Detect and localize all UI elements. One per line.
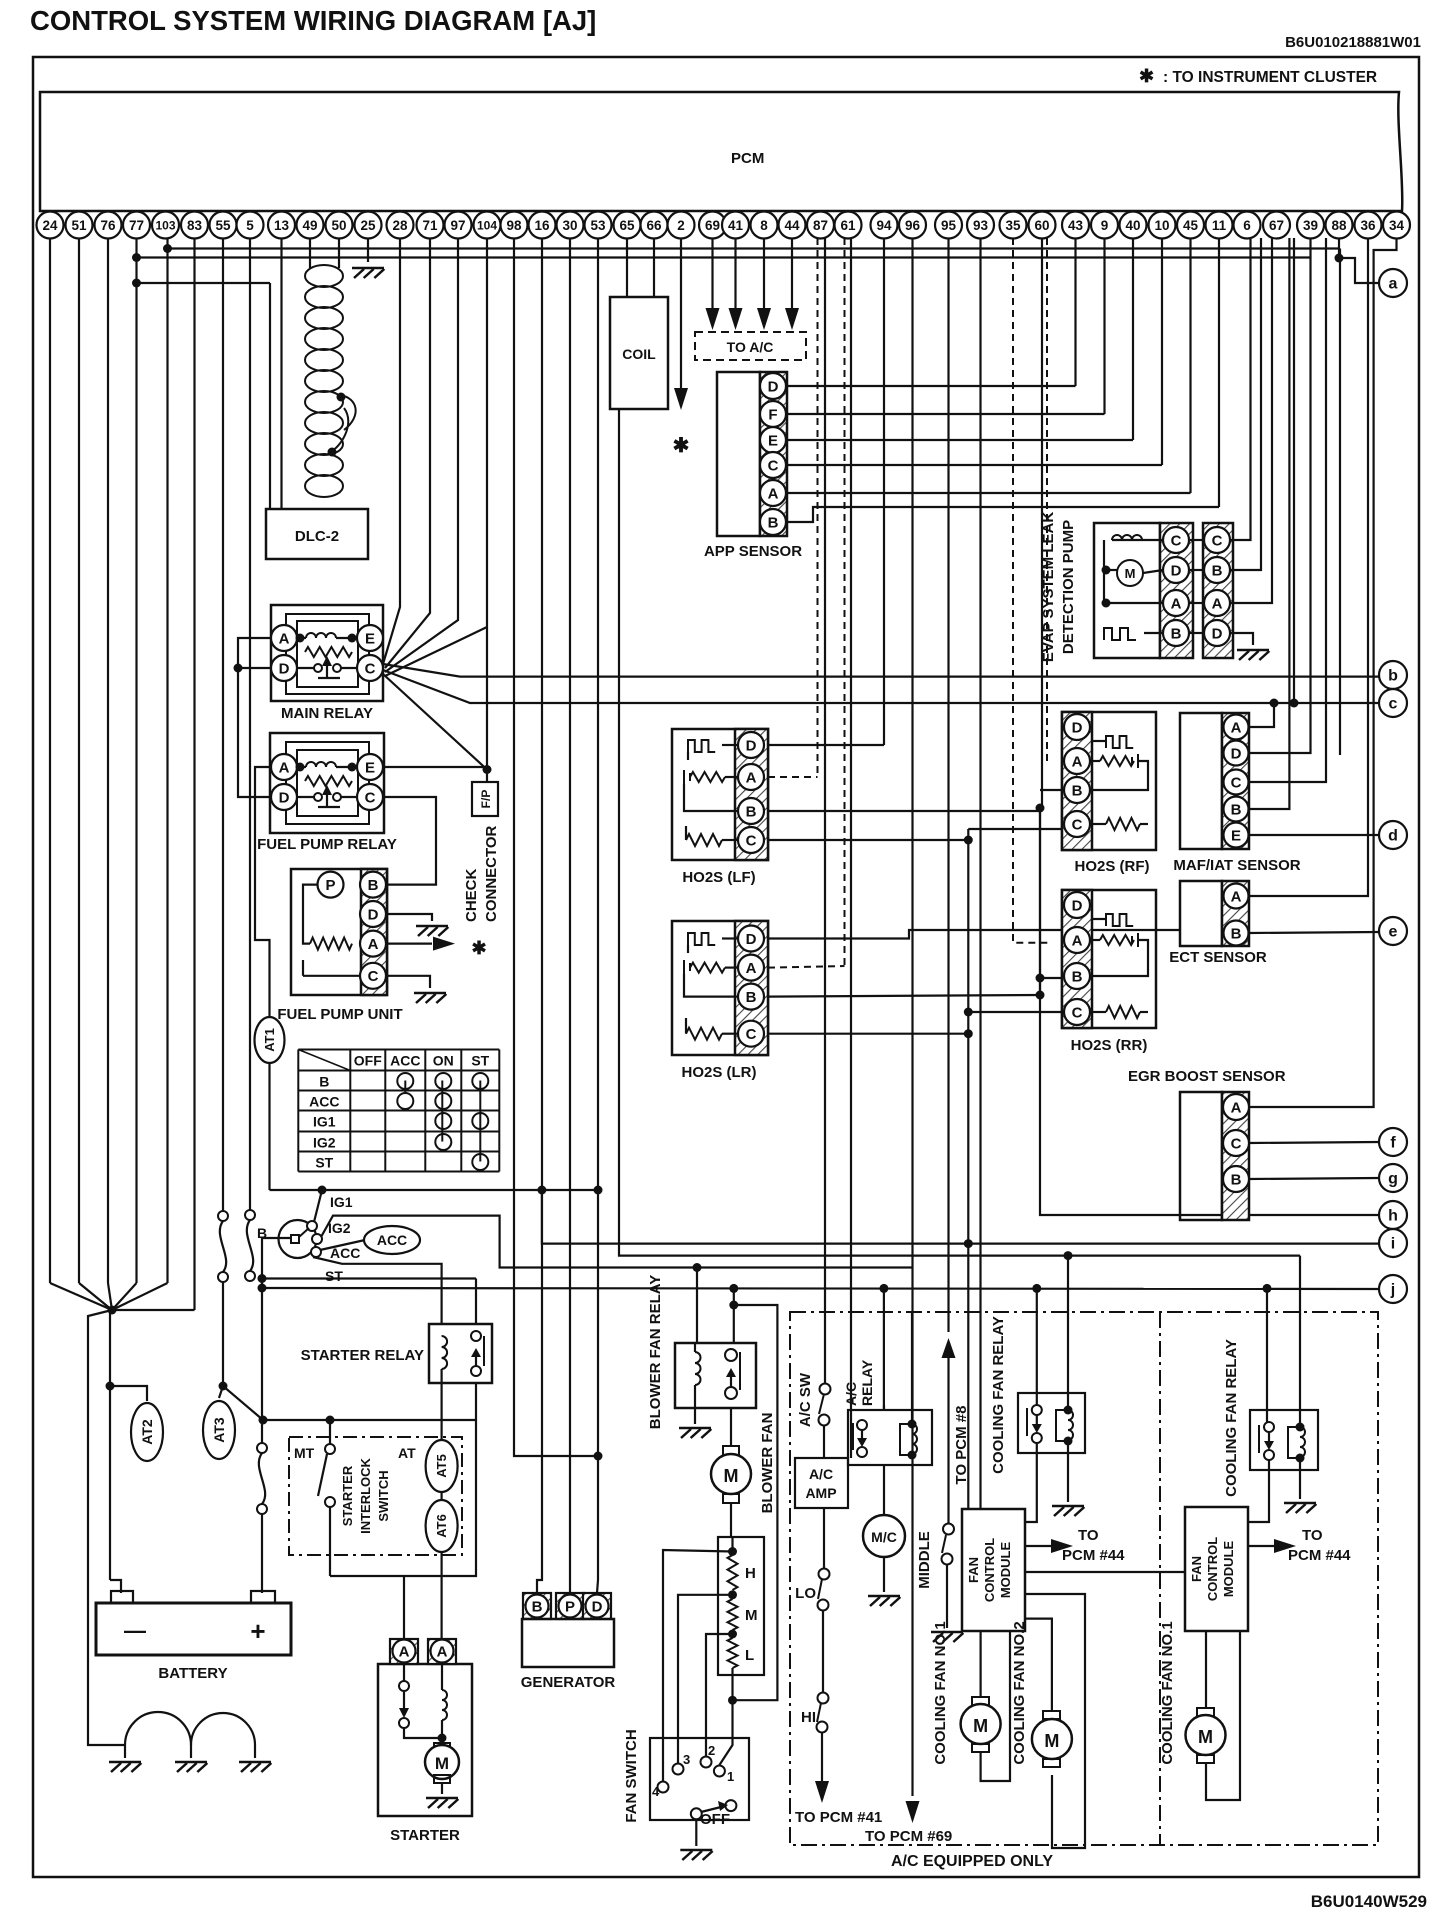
svg-text:44: 44 xyxy=(784,218,800,233)
svg-text:d: d xyxy=(1388,828,1398,845)
connector AT5 xyxy=(426,1440,458,1492)
svg-text:93: 93 xyxy=(973,218,989,233)
magnetic clutch M/C xyxy=(863,1515,905,1557)
svg-text:BATTERY: BATTERY xyxy=(158,1665,227,1682)
wire horizontal to interlock / relay return xyxy=(263,1419,476,1421)
node h xyxy=(1379,1201,1407,1229)
svg-text:F: F xyxy=(768,406,777,423)
wire MAF A to node c xyxy=(1249,703,1274,727)
svg-text:B: B xyxy=(768,514,779,531)
svg-text:EGR BOOST SENSOR: EGR BOOST SENSOR xyxy=(1128,1068,1286,1085)
svg-text:25: 25 xyxy=(360,218,376,233)
wire A/C relay to magnetic clutch xyxy=(883,1465,885,1516)
svg-text:30: 30 xyxy=(562,218,577,233)
node b xyxy=(1379,661,1407,689)
svg-text:M: M xyxy=(724,1466,739,1486)
svg-text:34: 34 xyxy=(1389,218,1405,233)
svg-text:1: 1 xyxy=(727,1769,734,1784)
svg-text:C: C xyxy=(365,789,376,806)
svg-text:AT5: AT5 xyxy=(434,1454,449,1478)
connector AT6 xyxy=(426,1500,458,1552)
svg-text:P: P xyxy=(325,877,335,894)
fan control module right xyxy=(1185,1507,1248,1631)
svg-text:B6U0140W529: B6U0140W529 xyxy=(1311,1892,1427,1911)
node c wire from main relay C xyxy=(383,670,1379,703)
wire bundle pins 24,51,76,77,103,83 to battery junction xyxy=(49,238,51,1283)
dashed wire pin 87 to HO2S LF pin A xyxy=(817,238,819,777)
svg-text:IG1: IG1 xyxy=(313,1114,336,1130)
svg-text:D: D xyxy=(279,789,290,806)
svg-text:A: A xyxy=(746,769,757,786)
svg-text:66: 66 xyxy=(646,218,662,233)
wire pin 88 to node a xyxy=(1338,238,1340,258)
svg-text:CHECK: CHECK xyxy=(463,868,480,922)
svg-text:96: 96 xyxy=(905,218,921,233)
svg-text:HO2S (LR): HO2S (LR) xyxy=(682,1064,757,1081)
svg-text:AMP: AMP xyxy=(805,1485,836,1501)
connector AT1 xyxy=(255,1017,285,1063)
node b wire from main relay C xyxy=(383,664,1379,677)
svg-text:AT2: AT2 xyxy=(139,1419,155,1445)
svg-text:b: b xyxy=(1388,668,1398,685)
svg-text:FAN SWITCH: FAN SWITCH xyxy=(623,1729,640,1822)
svg-text:F/P: F/P xyxy=(479,790,493,809)
svg-text:A/C SW: A/C SW xyxy=(797,1372,814,1427)
svg-text:A: A xyxy=(437,1643,448,1660)
svg-text:FUEL PUMP RELAY: FUEL PUMP RELAY xyxy=(257,836,397,853)
svg-text:60: 60 xyxy=(1034,218,1049,233)
svg-text:LO: LO xyxy=(795,1585,816,1602)
svg-text:B: B xyxy=(532,1598,543,1615)
wire LF D to pin 94 xyxy=(768,744,884,746)
wire starter relay coil to AT5/AT6 xyxy=(441,1383,443,1440)
svg-text:88: 88 xyxy=(1331,218,1347,233)
svg-text:h: h xyxy=(1388,1208,1398,1225)
wire LR D to ECT B row xyxy=(768,930,1180,939)
wire fuel pump relay C to fuel pump unit B xyxy=(383,797,436,885)
svg-text:D: D xyxy=(768,378,779,395)
HO2S (RR) oxygen sensor xyxy=(1062,890,1156,1028)
wire EGR C to node f xyxy=(1249,1142,1379,1143)
svg-text:69: 69 xyxy=(705,218,720,233)
svg-text:APP SENSOR: APP SENSOR xyxy=(704,543,802,560)
HO2S (LF) oxygen sensor xyxy=(672,729,768,860)
wire C chain to RR C xyxy=(964,1008,973,1017)
ECT sensor xyxy=(1180,881,1222,946)
svg-text:61: 61 xyxy=(840,218,856,233)
interlock MT switch xyxy=(329,1420,331,1444)
wire IG1 line xyxy=(314,1190,322,1222)
connector AT3 xyxy=(219,1386,223,1398)
svg-text:COOLING FAN NO.1: COOLING FAN NO.1 xyxy=(932,1621,949,1764)
wire starter relay switch to starter A left xyxy=(330,1420,476,1576)
svg-text:E: E xyxy=(768,432,778,449)
wire junction down to battery negative xyxy=(109,1310,111,1580)
svg-text:76: 76 xyxy=(100,218,116,233)
svg-text:C: C xyxy=(1171,532,1182,549)
svg-text:EVAP SYSTEM LEAK: EVAP SYSTEM LEAK xyxy=(1040,512,1057,662)
HO2S (RF) oxygen sensor xyxy=(1062,712,1156,850)
wire i chain into module xyxy=(967,1244,969,1509)
svg-text:CONTROL SYSTEM WIRING DIAGRAM: CONTROL SYSTEM WIRING DIAGRAM [AJ] xyxy=(30,5,596,36)
ignition switch table xyxy=(297,1050,299,1172)
svg-text:A: A xyxy=(279,759,290,776)
svg-text:✱: ✱ xyxy=(1139,66,1154,86)
dashed wire pin 60b to HO2S RF pin A xyxy=(1047,238,1052,761)
svg-text:D: D xyxy=(279,660,290,677)
svg-text:40: 40 xyxy=(1125,218,1140,233)
wire ACC to connector xyxy=(320,1240,365,1250)
ground fuel pump unit C xyxy=(387,976,430,988)
svg-text:M/C: M/C xyxy=(871,1529,897,1545)
MIDDLE pressure switch xyxy=(943,1524,954,1535)
wire MAF B to pin 36 xyxy=(1249,238,1289,809)
svg-text:IG2: IG2 xyxy=(313,1135,336,1151)
svg-text:FAN: FAN xyxy=(966,1557,981,1583)
svg-text:SWITCH: SWITCH xyxy=(376,1470,391,1521)
svg-text:3: 3 xyxy=(683,1752,690,1767)
svg-text:97: 97 xyxy=(450,218,465,233)
svg-text:B: B xyxy=(1231,925,1242,942)
svg-text:DETECTION PUMP: DETECTION PUMP xyxy=(1060,520,1077,654)
wire ECT A to pin 36 xyxy=(1249,238,1368,896)
svg-text:D: D xyxy=(1231,745,1242,762)
svg-text:TO: TO xyxy=(1302,1527,1323,1544)
svg-text:CONTROL: CONTROL xyxy=(982,1538,997,1602)
svg-text:55: 55 xyxy=(215,218,231,233)
wire battery positive column xyxy=(261,1238,263,1443)
wire ECT B to node e xyxy=(1249,932,1379,933)
svg-text:i: i xyxy=(1391,1236,1395,1253)
ignition switch xyxy=(279,1220,317,1258)
svg-text:C: C xyxy=(368,968,379,985)
wire LF B to B chain xyxy=(768,810,1040,812)
ground blower fan relay xyxy=(694,1408,696,1424)
svg-text:B: B xyxy=(1072,782,1083,799)
svg-text:2: 2 xyxy=(708,1743,715,1758)
svg-text:COOLING FAN RELAY: COOLING FAN RELAY xyxy=(990,1316,1007,1474)
svg-text:INTERLOCK: INTERLOCK xyxy=(358,1457,373,1533)
svg-text:TO A/C: TO A/C xyxy=(727,339,774,355)
svg-text:f: f xyxy=(1390,1135,1396,1152)
wire relay to fan control module xyxy=(1025,1443,1037,1522)
bus wire from pin 77 (y=257.5) xyxy=(135,238,137,283)
wire LF C to C chain xyxy=(768,839,968,841)
svg-text:M: M xyxy=(435,1754,449,1773)
svg-text:ACC: ACC xyxy=(390,1053,420,1069)
svg-text:MODULE: MODULE xyxy=(1221,1541,1236,1598)
wire pin 87 to A/C switch xyxy=(824,238,826,1389)
node i wire from IG1 junction xyxy=(542,1190,1379,1244)
svg-text:E: E xyxy=(365,630,375,647)
starter motor assembly xyxy=(378,1664,472,1816)
wire B chain links xyxy=(1040,789,1064,791)
svg-text:A: A xyxy=(1231,888,1242,905)
relay MAIN RELAY xyxy=(271,605,383,701)
svg-text:104: 104 xyxy=(477,218,497,232)
svg-text:B: B xyxy=(319,1074,329,1090)
starter interlock switch dashed box xyxy=(289,1437,462,1555)
svg-text:B6U010218881W01: B6U010218881W01 xyxy=(1285,34,1421,51)
svg-text:D: D xyxy=(746,737,757,754)
svg-text:ACC: ACC xyxy=(377,1232,407,1248)
svg-text:OFF: OFF xyxy=(700,1811,730,1828)
svg-text:13: 13 xyxy=(274,218,290,233)
svg-text:E: E xyxy=(1231,827,1241,844)
svg-text:A: A xyxy=(768,485,779,502)
wire A/C relay coil riser xyxy=(911,1313,913,1414)
svg-text:B: B xyxy=(746,989,757,1006)
relay STARTER RELAY xyxy=(429,1324,492,1383)
svg-text:A: A xyxy=(279,630,290,647)
wires pins 28,71,97 into main relay C xyxy=(383,238,400,664)
svg-text:C: C xyxy=(365,660,376,677)
HO2S (LR) oxygen sensor xyxy=(672,921,768,1055)
svg-text:FUEL PUMP UNIT: FUEL PUMP UNIT xyxy=(277,1006,402,1023)
svg-text:DLC-2: DLC-2 xyxy=(295,528,339,545)
svg-text:51: 51 xyxy=(71,218,87,233)
svg-text:45: 45 xyxy=(1183,218,1199,233)
cable drain hook xyxy=(330,395,356,452)
TO A/C dashed box xyxy=(695,332,806,360)
svg-text:95: 95 xyxy=(941,218,957,233)
svg-text:TO: TO xyxy=(1078,1527,1099,1544)
svg-text:M: M xyxy=(1125,566,1136,581)
wire to PCM 69 arrow xyxy=(906,1801,920,1823)
svg-text:A: A xyxy=(1212,595,1223,612)
APP sensor connector xyxy=(717,372,760,536)
svg-text:D: D xyxy=(368,906,379,923)
wire module to cooling fan no1 xyxy=(979,1631,981,1697)
wire EVAP B to pin 67 xyxy=(1230,238,1261,570)
svg-text:65: 65 xyxy=(619,218,635,233)
svg-text:COOLING FAN RELAY: COOLING FAN RELAY xyxy=(1223,1339,1240,1497)
MAF/IAT sensor xyxy=(1180,713,1222,849)
wire AT1 to fuel pump relay A xyxy=(255,767,271,1017)
wires APP sensor to PCM pins 43,9,40,10,45,11 xyxy=(786,385,1076,387)
svg-text:2: 2 xyxy=(677,218,685,233)
svg-text:43: 43 xyxy=(1068,218,1084,233)
svg-text:4: 4 xyxy=(652,1784,660,1799)
svg-text:50: 50 xyxy=(331,218,346,233)
EVAP harness connector xyxy=(1203,523,1233,658)
svg-text:FAN: FAN xyxy=(1189,1556,1204,1582)
wires pins 65,66 to coil xyxy=(626,238,628,297)
battery xyxy=(96,1603,291,1655)
svg-text:A/C: A/C xyxy=(843,1382,859,1406)
svg-text:ST: ST xyxy=(471,1053,489,1069)
svg-text:B: B xyxy=(746,803,757,820)
svg-text:HO2S (RF): HO2S (RF) xyxy=(1075,858,1150,875)
junction battery feed xyxy=(108,1306,117,1315)
svg-text:C: C xyxy=(746,1026,757,1043)
wire AT3 junction diagonal to battery plus column xyxy=(223,1386,263,1420)
svg-text:M: M xyxy=(745,1607,758,1624)
fan switch wires xyxy=(663,1550,733,1782)
arrow to PCM 44 left xyxy=(1025,1545,1052,1547)
ground cooling fan relay right xyxy=(1299,1458,1301,1499)
fuel pump unit xyxy=(291,869,387,995)
svg-text:HO2S (RR): HO2S (RR) xyxy=(1071,1037,1148,1054)
node c xyxy=(1379,689,1407,717)
wire pin 61 to A/C amplifier xyxy=(850,238,852,1458)
wire fuel pump relay E to check connector junction xyxy=(383,766,487,768)
svg-text:83: 83 xyxy=(187,218,203,233)
node j xyxy=(1379,1275,1407,1303)
generator xyxy=(523,1593,551,1619)
svg-text:PCM: PCM xyxy=(731,150,764,167)
svg-text:AT6: AT6 xyxy=(434,1514,449,1538)
svg-text:M: M xyxy=(973,1716,988,1736)
node d xyxy=(1379,821,1407,849)
svg-text:67: 67 xyxy=(1269,218,1284,233)
svg-text:ON: ON xyxy=(433,1053,454,1069)
svg-text:B: B xyxy=(1212,562,1223,579)
dashed wire LR A xyxy=(768,966,845,968)
check connector F/P box xyxy=(472,782,498,816)
PCM box xyxy=(40,92,1402,211)
svg-text:16: 16 xyxy=(534,218,550,233)
svg-text:L: L xyxy=(745,1647,754,1664)
svg-text:A: A xyxy=(1072,753,1083,770)
wire C chain vertical to node i xyxy=(967,829,969,1244)
wire pin 13 to DLC-2 xyxy=(280,238,282,509)
ground fuel pump unit D xyxy=(387,914,432,921)
svg-text:B: B xyxy=(1231,801,1242,818)
wire pin 95 to PCM 8 arrow xyxy=(947,238,949,1332)
svg-text:TO PCM #69: TO PCM #69 xyxy=(865,1828,952,1845)
svg-text:6: 6 xyxy=(1243,218,1251,233)
coil COIL box xyxy=(610,297,668,409)
wire LR C to C chain xyxy=(768,1033,968,1035)
wire relay to module right xyxy=(1249,1460,1269,1522)
svg-text:D: D xyxy=(592,1598,603,1615)
wire pin 2 to instrument cluster arrow xyxy=(680,238,682,388)
svg-text:36: 36 xyxy=(1360,218,1376,233)
svg-text:A/C: A/C xyxy=(809,1466,833,1482)
shielded cable spiral pins 49,50 to DLC-2 xyxy=(309,238,311,268)
svg-text:M: M xyxy=(1198,1727,1213,1747)
PCM connector pin row xyxy=(37,212,64,239)
svg-text:C: C xyxy=(1072,1004,1083,1021)
ground cooling fan relay left xyxy=(1067,1441,1069,1502)
dashed wire LF A xyxy=(768,776,818,778)
wire pin 96 to PCM 69 arrow xyxy=(911,238,913,1796)
wire top bus riser xyxy=(1339,249,1341,756)
svg-text:ST: ST xyxy=(315,1155,333,1171)
wire EGR A to pin 34 xyxy=(1249,238,1397,1107)
svg-text:STARTER: STARTER xyxy=(390,1827,460,1844)
svg-text:B: B xyxy=(1072,968,1083,985)
svg-text:A/C EQUIPPED ONLY: A/C EQUIPPED ONLY xyxy=(891,1853,1053,1870)
wire fuel pump unit A to check connector xyxy=(387,942,432,944)
wire LR B to B chain xyxy=(768,995,1040,997)
wire pin 93 to fan control module xyxy=(979,238,981,1509)
svg-text:✱: ✱ xyxy=(471,938,486,958)
wire pin77 to DLC-2 (y=283) xyxy=(137,282,271,284)
svg-text:P: P xyxy=(565,1598,575,1615)
wire MAF D to pin 39 xyxy=(1249,238,1311,753)
svg-text:TO PCM #41: TO PCM #41 xyxy=(795,1809,882,1826)
svg-text:COIL: COIL xyxy=(622,346,656,362)
svg-text:GENERATOR: GENERATOR xyxy=(521,1674,616,1691)
svg-text:B: B xyxy=(1171,625,1182,642)
svg-text:MAIN RELAY: MAIN RELAY xyxy=(281,705,373,722)
svg-text:24: 24 xyxy=(42,218,58,233)
svg-text:+: + xyxy=(250,1616,265,1646)
svg-text:ACC: ACC xyxy=(309,1094,339,1110)
A/C amplifier xyxy=(795,1458,848,1508)
svg-text:B: B xyxy=(368,877,379,894)
svg-text:A: A xyxy=(1171,595,1182,612)
svg-text:e: e xyxy=(1389,924,1398,941)
starter motor M xyxy=(434,1743,450,1751)
svg-text:HI: HI xyxy=(801,1709,816,1726)
svg-text:E: E xyxy=(365,759,375,776)
node i xyxy=(1379,1229,1407,1257)
svg-text:10: 10 xyxy=(1154,218,1169,233)
svg-text:MIDDLE: MIDDLE xyxy=(916,1531,933,1589)
dashed wire pin 61 to HO2S LR pin A xyxy=(844,238,846,966)
svg-text:MT: MT xyxy=(294,1445,315,1461)
svg-text:COOLING FAN NO.2: COOLING FAN NO.2 xyxy=(1011,1621,1028,1764)
svg-text:OFF: OFF xyxy=(354,1053,382,1069)
svg-text:28: 28 xyxy=(392,218,408,233)
bus wire from pin 103 (y=248.5) xyxy=(166,238,168,249)
wire module link to right section xyxy=(1025,1571,1185,1573)
svg-text:C: C xyxy=(768,457,779,474)
wire main relay A,D to supply column xyxy=(238,638,271,797)
svg-text:A: A xyxy=(1231,1099,1242,1116)
svg-text:94: 94 xyxy=(876,218,892,233)
svg-text:MAF/IAT SENSOR: MAF/IAT SENSOR xyxy=(1173,857,1300,874)
ground pin 25 xyxy=(367,238,369,262)
svg-text:A: A xyxy=(1072,932,1083,949)
svg-text:C: C xyxy=(746,832,757,849)
svg-text:ACC: ACC xyxy=(330,1245,360,1261)
svg-text:C: C xyxy=(1231,774,1242,791)
arrow to PCM 44 right xyxy=(1249,1545,1275,1547)
svg-text:PCM #44: PCM #44 xyxy=(1288,1547,1351,1564)
svg-text:8: 8 xyxy=(760,218,768,233)
svg-text:49: 49 xyxy=(302,218,317,233)
svg-text:11: 11 xyxy=(1212,218,1227,233)
wire B feed to starter relay switch xyxy=(262,1277,476,1279)
svg-text:9: 9 xyxy=(1101,218,1109,233)
svg-text:A: A xyxy=(399,1643,410,1660)
node a xyxy=(1379,269,1407,297)
svg-text:AT: AT xyxy=(398,1445,416,1461)
svg-text:39: 39 xyxy=(1303,218,1318,233)
wire EVAP A riser xyxy=(1230,238,1272,603)
svg-text:D: D xyxy=(1072,719,1083,736)
svg-text:98: 98 xyxy=(506,218,522,233)
svg-text:A: A xyxy=(1231,719,1242,736)
node j battery wire xyxy=(262,1288,1379,1289)
wire pin 55 with fuse to AT3 xyxy=(222,238,224,1212)
wire IG2 line to blower fan relay coil xyxy=(321,1216,913,1268)
wire coil bottom long feed to cooling fan relays xyxy=(619,409,1300,1256)
svg-text:D: D xyxy=(1171,562,1182,579)
blower fan resistor block xyxy=(718,1537,764,1675)
svg-text:35: 35 xyxy=(1005,218,1021,233)
EVAP pump motor xyxy=(1117,560,1143,586)
svg-text:71: 71 xyxy=(422,218,438,233)
svg-text:A: A xyxy=(746,960,757,977)
svg-text:A: A xyxy=(368,936,379,953)
svg-text:77: 77 xyxy=(129,218,144,233)
fan control module left xyxy=(962,1509,1025,1631)
